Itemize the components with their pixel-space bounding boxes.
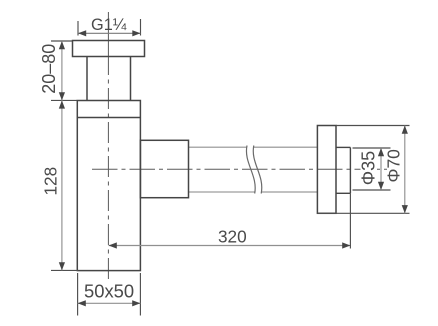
svg-text:Φ35: Φ35 [359,151,379,185]
dimension 128 [51,269,78,271]
component trap body (50x50 square cup) [77,101,140,271]
component wall flange [317,126,336,214]
svg-text:G1¼: G1¼ [91,16,127,34]
svg-text:20–80: 20–80 [39,44,59,94]
svg-text:Φ70: Φ70 [384,149,404,183]
node pipe break S-curves [246,146,261,194]
dimension phi35 [353,148,391,190]
node body vertical centerline [107,12,109,279]
node pipe horizontal centerline [92,168,390,170]
dimension 320 [109,245,351,247]
wire pipe outline left segment (grey) [189,147,255,192]
svg-text:50x50: 50x50 [84,281,134,302]
component neck tube [87,57,131,101]
dimension 50x50 [78,273,141,316]
component outlet nut [140,140,188,197]
dimension G1 1/4 [78,19,141,36]
svg-text:320: 320 [218,226,247,246]
svg-text:128: 128 [41,167,61,196]
dimension 20-80 [51,41,77,100]
wire pipe outline right segment [254,147,318,192]
component wall pipe stub [336,147,350,193]
dimension phi70 [317,126,409,214]
component top flange (G1 1/4 nut) [73,41,145,57]
node body nut separation line [77,117,140,119]
